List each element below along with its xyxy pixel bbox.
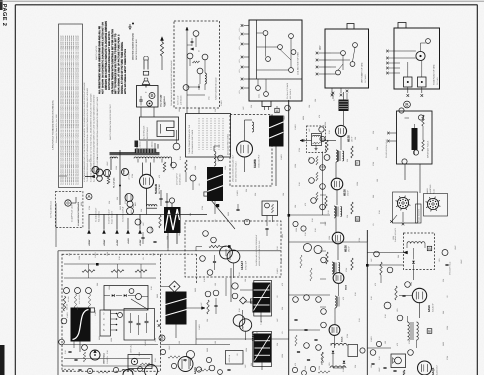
bottom center circles [209, 365, 215, 371]
radio socket enclosure [424, 194, 448, 217]
svg-text:CONTROL: CONTROL [106, 356, 109, 364]
svg-text:.22: .22 [276, 296, 279, 299]
filter section circle A [135, 219, 141, 225]
B plus risers [146, 206, 148, 215]
heater feed wire [85, 176, 91, 178]
right vertical bus [366, 230, 368, 375]
vert lin control box [128, 355, 152, 369]
svg-text:100: 100 [214, 283, 217, 286]
filter capacitor C1B [165, 200, 168, 202]
junction square flyback [216, 204, 219, 207]
agc bottom wire [64, 344, 158, 346]
agc bottom wire 2 [64, 358, 150, 360]
wire right bus to quad [367, 252, 403, 254]
heater tube V15b [127, 201, 133, 207]
svg-text:.047: .047 [244, 365, 247, 369]
heater feed arrow [91, 175, 94, 178]
svg-text:5U4GB: 5U4GB [154, 183, 158, 194]
quad boxed letter B [427, 246, 431, 250]
svg-text:100: 100 [214, 341, 217, 344]
2nd IF wiring [335, 162, 337, 178]
transformer lead left [110, 158, 112, 170]
svg-text:.001: .001 [217, 159, 220, 163]
svg-text:.0047: .0047 [178, 232, 181, 237]
video out coupling box [262, 201, 278, 216]
svg-text:2ND IF: 2ND IF [347, 189, 350, 196]
svg-text:TO PIN 3 INTERLOCK: TO PIN 3 INTERLOCK [50, 200, 53, 218]
pilot light dashed box [55, 192, 83, 228]
legend chassis ground symbol [129, 24, 131, 27]
coil section divider [249, 78, 302, 80]
svg-text:.047: .047 [276, 319, 279, 323]
svg-text:YOKE PLUG TOP VIEW: YOKE PLUG TOP VIEW [433, 64, 436, 85]
IF coil core lines 1 [338, 151, 340, 161]
1st IF transformer core [339, 100, 349, 112]
filament riser wire [119, 150, 121, 205]
horiz damper circle [173, 143, 180, 150]
contrast cap C30 [265, 227, 268, 229]
svg-text:PLUG: PLUG [432, 189, 435, 194]
IF coil L12 [332, 262, 334, 274]
transformer primary leads [136, 143, 138, 149]
left edge solid wire [57, 251, 59, 375]
svg-text:50K 3W: 50K 3W [66, 304, 69, 310]
radio socket circle [427, 198, 438, 209]
yoke small circle [426, 39, 431, 44]
tuner vertical feed wire [186, 30, 188, 103]
svg-text:.001: .001 [438, 259, 441, 263]
rectifier plate leads [142, 163, 144, 176]
picture tube circle bottom [145, 365, 158, 375]
page edge shadow top-left [0, 0, 3, 10]
B+ feed wire 1 [88, 214, 90, 230]
right misc caps [371, 362, 374, 364]
agc test circle B [75, 288, 81, 294]
agc dashed enclosure [62, 254, 161, 371]
svg-text:1 MEG: 1 MEG [294, 124, 297, 130]
ladder wiring vertical [322, 152, 324, 216]
coil section bottom tab [262, 101, 271, 107]
transformer secondary taps [137, 159, 139, 163]
yoke plug box outline [394, 28, 440, 89]
svg-text:VERT HOLD: VERT HOLD [103, 352, 106, 364]
phase det diode X2 [112, 294, 115, 297]
svg-text:1 MEG: 1 MEG [276, 268, 279, 274]
quad box feed wire [381, 264, 404, 266]
quad coil dashed box [404, 233, 435, 270]
svg-text:100: 100 [160, 95, 163, 98]
terminal strip TS1 [100, 310, 111, 336]
VHF tuner dashed enclosure [174, 21, 220, 108]
svg-text:TO JUNCTION OF: TO JUNCTION OF [95, 208, 98, 222]
svg-text:.047: .047 [370, 259, 373, 263]
wire flyback to bus [214, 201, 216, 214]
UHF pin arrows [324, 52, 331, 54]
flyback boxed terminal [204, 192, 208, 196]
sync wiring [220, 246, 226, 248]
bottom edge circle 3 [138, 367, 143, 372]
T3 lead top [276, 106, 278, 108]
phono socket enclosure [393, 192, 418, 223]
AC interlock plug flare [142, 81, 150, 85]
B+ arrow terminal 4 [138, 230, 142, 234]
vert cap C41 [214, 304, 217, 306]
sound takeoff core lines [337, 297, 339, 307]
coil section box outline [249, 20, 302, 101]
sync wire x231 [230, 268, 232, 302]
switch S1B contact [147, 101, 153, 107]
svg-text:.047: .047 [308, 129, 311, 133]
bottom caps small [68, 350, 71, 352]
far right circled letter [442, 250, 448, 256]
svg-text:COIL SECTION TOP VIEW: COIL SECTION TOP VIEW [297, 52, 300, 75]
tuner internal circle V5 [197, 68, 203, 74]
svg-text:6BZ6: 6BZ6 [343, 189, 347, 196]
svg-text:IMPORTANT FOCUS: IMPORTANT FOCUS [427, 140, 430, 158]
coupling box resistor [271, 204, 273, 213]
svg-text:6AW8: 6AW8 [253, 159, 257, 168]
heater tube V23 [127, 208, 134, 215]
center bottom circle row [292, 367, 297, 372]
B plus distribution wire [89, 214, 207, 216]
sync discriminator transformer T5 blob [253, 283, 271, 313]
svg-text:470: 470 [294, 363, 297, 366]
phase det wiring [104, 295, 110, 297]
svg-text:5600: 5600 [281, 234, 284, 238]
audio amp grid components [395, 286, 397, 300]
svg-text:HORIZ OUTPUT TUBE TOP CAP: HORIZ OUTPUT TUBE TOP CAP [258, 240, 261, 266]
sync input resistor R40 [209, 245, 220, 247]
legend bullet [132, 23, 134, 25]
svg-text:6AU6: 6AU6 [341, 336, 344, 342]
IF resistor R22 [325, 196, 327, 208]
video det tube V15 [333, 273, 344, 284]
IF strip left stubs [320, 138, 326, 140]
horiz section circle [244, 219, 250, 225]
bottom edge coil [122, 370, 134, 372]
cap bank box [124, 309, 155, 341]
svg-text:ANT COAX FINE TUNING: ANT COAX FINE TUNING [227, 133, 230, 155]
svg-text:121V: 121V [319, 45, 322, 50]
ratio det box [348, 345, 358, 357]
audio amp wiring [399, 295, 412, 297]
svg-text:6AV6: 6AV6 [427, 305, 431, 312]
svg-text:AC INTERLOCK: AC INTERLOCK [143, 125, 146, 139]
power switch box [137, 86, 159, 108]
svg-text:OF FUNER: OF FUNER [364, 74, 367, 83]
svg-text:TUNER CONNECTIONS WITH THE: TUNER CONNECTIONS WITH THE [188, 124, 191, 154]
agc dashed extension right [196, 254, 198, 284]
junction square sync [228, 245, 231, 248]
svg-text:.0047: .0047 [378, 368, 381, 373]
horiz section cap [236, 208, 239, 210]
phase det circled letter [129, 289, 134, 294]
agc test circle A [64, 288, 70, 294]
bottom edge circle 1 [87, 368, 92, 373]
svg-text:1 MEG: 1 MEG [236, 190, 239, 196]
sound takeoff coil L41 [331, 344, 347, 346]
svg-text:5600: 5600 [206, 348, 209, 352]
agc wire 2 [64, 277, 156, 279]
video out transformer T3 blob [269, 116, 284, 147]
svg-text:.01: .01 [276, 224, 279, 227]
svg-text:1 MEG: 1 MEG [198, 324, 201, 330]
wire audio bottom [332, 364, 334, 368]
audio output transformer T9 [408, 322, 410, 340]
focus solenoid bar [412, 128, 418, 150]
svg-text:1ST IF: 1ST IF [351, 136, 354, 142]
coil section tab leads [264, 107, 266, 111]
svg-text:.01: .01 [372, 224, 375, 227]
filter capacitor C1A [159, 197, 162, 199]
ladder test circle 6 [320, 204, 326, 210]
quad arrow [404, 251, 408, 254]
page edge shadow bottom-left [0, 345, 5, 375]
circled terminal right [171, 162, 177, 168]
B+ arrow terminal 1 [87, 230, 91, 234]
extra B+ arrow [127, 218, 129, 230]
svg-text:TO PIN 4 OF TUNER: TO PIN 4 OF TUNER [286, 82, 289, 99]
heater tube V13 [97, 176, 103, 182]
svg-text:.01: .01 [88, 160, 91, 163]
agc resistor R52 [135, 270, 147, 273]
svg-text:VERT LIN: VERT LIN [130, 345, 133, 353]
tuner junction dot [198, 86, 200, 88]
svg-text:1 MEG: 1 MEG [94, 252, 97, 258]
tuner parts list box [186, 114, 231, 158]
svg-text:1 MEG: 1 MEG [66, 312, 69, 318]
agc test circle C [86, 288, 92, 294]
UHF terminal circles [341, 51, 346, 56]
coil section terminal circles [263, 31, 268, 36]
UHF bottom X arrows [331, 88, 333, 93]
filter section circle B [147, 227, 153, 233]
audio amp tube V20 6AV6 [412, 288, 426, 302]
3rd IF amp tube V9 6BZ6 [332, 232, 344, 244]
svg-text:1 MEG: 1 MEG [94, 310, 97, 316]
svg-text:SAFETY NOTICE: SAFETY NOTICE [95, 45, 98, 60]
vert osc tube V19 12AX7 section A [233, 315, 245, 327]
svg-text:VIDEO OUTPUT: VIDEO OUTPUT [257, 154, 260, 168]
svg-text:.22: .22 [236, 354, 239, 357]
ladder resistor 3 [316, 192, 318, 201]
yoke wiring [420, 43, 422, 51]
svg-text:470: 470 [342, 297, 345, 300]
sound takeoff tube V16 [329, 325, 340, 336]
focus control box [397, 111, 433, 164]
AC interlock plug prongs lower [144, 78, 146, 81]
svg-text:+140V: +140V [116, 239, 119, 246]
audio takeoff resistor R60 [380, 262, 382, 275]
IF strip feed wire [343, 92, 345, 100]
resistor under TP B [74, 294, 76, 308]
T7 leads [79, 342, 81, 353]
svg-text:FOLLOWING IN ONE TUNER: FOLLOWING IN ONE TUNER [191, 129, 194, 154]
B+ arrow terminal 2 [102, 230, 106, 234]
phase det diagonal [131, 299, 148, 310]
focus resistor R71 [422, 140, 424, 151]
wire sync column [225, 278, 227, 296]
antenna arrow [161, 37, 164, 41]
tuner resistor R3 [193, 61, 200, 63]
ladder test circle 1 [309, 158, 315, 164]
yoke bottom arrows [407, 87, 409, 93]
IF strip top arrows [332, 95, 334, 99]
svg-text:R40 AND R41: R40 AND R41 [98, 211, 101, 222]
transformer lead right [171, 158, 173, 166]
T7 top terminal [90, 308, 94, 312]
sound resistor R61 [321, 352, 323, 365]
svg-text:3RD IF: 3RD IF [348, 245, 351, 252]
agc wire top [58, 250, 281, 252]
width resistor R31 [185, 160, 187, 172]
svg-text:+135V: +135V [139, 239, 142, 246]
svg-text:470: 470 [374, 283, 377, 286]
main vertical bus center [288, 100, 290, 375]
center bottom resistors [295, 335, 297, 346]
tuner trimmer cap C2 [191, 40, 194, 42]
AC interlock plug neck [143, 60, 145, 70]
svg-text:.047: .047 [142, 223, 145, 227]
agc bus wire [64, 263, 156, 265]
svg-text:RECEPTACLE: RECEPTACLE [146, 126, 149, 139]
horiz blocking transformer T8 blob [166, 292, 187, 325]
coil section wiring [265, 35, 267, 56]
schematic border left [14, 5, 16, 375]
IF resistor R21 [351, 146, 353, 158]
yoke socket circle [416, 51, 425, 60]
bottom edge circle 2 [113, 367, 118, 372]
filter cap C6 [153, 240, 156, 242]
IF coil core lines 2 [336, 207, 338, 217]
ladder resistor 2 [316, 172, 318, 181]
AC interlock plug collar [143, 71, 148, 75]
vert lin resistor [140, 363, 150, 365]
circled B agc [159, 335, 165, 341]
service notes box [59, 24, 83, 188]
svg-text:470: 470 [281, 283, 284, 286]
horiz osc diamond [169, 281, 180, 292]
center circles row [293, 221, 298, 226]
fuse blob near primary [135, 141, 139, 148]
flyback transformer T4 blob [207, 167, 223, 201]
wire sound to volume [343, 365, 345, 368]
svg-text:.0047: .0047 [460, 260, 463, 265]
schematic border top [15, 4, 477, 6]
svg-text:+140V: +140V [127, 237, 130, 244]
wire horiz section [195, 247, 197, 252]
svg-text:100: 100 [384, 341, 387, 344]
svg-text:6BZ6: 6BZ6 [344, 245, 348, 252]
T5 leads [240, 289, 253, 291]
svg-text:VERT LIN: VERT LIN [228, 354, 231, 362]
boxed letter A above T3 [275, 108, 279, 112]
ladder horizontal wire [289, 214, 330, 216]
sound diode X5 [343, 361, 346, 364]
trap ground symbol [315, 146, 317, 149]
svg-text:DENOTES CHASSIS GROUND: DENOTES CHASSIS GROUND [132, 32, 135, 60]
T9 terminal circle [397, 315, 403, 321]
yoke left pin stubs [394, 50, 400, 52]
UHF tuner tab [347, 24, 354, 30]
T2 leads bottom [167, 233, 169, 248]
svg-text:360VAC: 360VAC [151, 141, 154, 148]
trap lower circle [324, 155, 330, 161]
svg-text:1.5 AMP CIRCUIT BREAKER: 1.5 AMP CIRCUIT BREAKER [77, 201, 80, 226]
ladder test circle 2 [320, 165, 326, 171]
resistor under TP6 [83, 352, 85, 362]
bottom edge cap 1 [78, 368, 81, 370]
filter choke L1 [147, 205, 158, 207]
T8 lead right [187, 307, 206, 309]
vert resistor R42 [207, 300, 209, 314]
svg-text:.0047: .0047 [324, 222, 327, 227]
T9 boxed letter B [427, 329, 432, 334]
svg-text:RECTIFIER: RECTIFIER [158, 183, 161, 194]
svg-text:.22: .22 [446, 296, 449, 299]
T2 lead top [171, 203, 173, 207]
picture tube circle left [123, 370, 133, 375]
interlock silhouette [157, 121, 174, 137]
T8 bottom lead [175, 325, 177, 339]
IF bottom wiring [334, 335, 336, 348]
svg-text:1 MEG: 1 MEG [144, 340, 147, 346]
bottom center resistor [198, 369, 210, 371]
audio amp terminal [405, 282, 411, 288]
ladder test circle 3 [309, 178, 315, 184]
junction square audio [366, 264, 369, 267]
junction dot filament [119, 185, 121, 187]
svg-text:5600: 5600 [227, 212, 230, 216]
svg-text:.0047: .0047 [454, 246, 457, 251]
svg-text:100: 100 [376, 179, 379, 182]
scan line top edge [0, 0, 484, 2]
svg-text:100: 100 [152, 253, 155, 256]
ladder resistor 1 [316, 156, 318, 165]
trap coil box [312, 134, 322, 146]
video amp dashed box [230, 115, 272, 187]
video det wiring [338, 283, 340, 296]
heater resistor R60 [107, 176, 110, 184]
cap bank capacitor 3 [145, 320, 149, 322]
power transformer T1 secondary winding [134, 157, 172, 159]
svg-text:.0047: .0047 [106, 162, 109, 167]
antenna lead to bus [161, 56, 163, 70]
T2 test circle [169, 198, 174, 203]
width circle [190, 175, 196, 181]
heater tube V11 [96, 169, 103, 176]
heater tube V14 [122, 169, 129, 176]
video peaking coil L20 [252, 122, 254, 132]
svg-text:AUDIO OUT: AUDIO OUT [435, 364, 438, 375]
svg-text:RADIO SOCKET: RADIO SOCKET [111, 211, 114, 224]
vert test circle 2 [213, 290, 219, 296]
focus wiring [414, 124, 416, 128]
bottom left test circle TP5 [59, 339, 65, 345]
svg-text:B: B [160, 336, 163, 341]
svg-text:.0047: .0047 [164, 102, 167, 107]
coil section lower circles [256, 86, 261, 91]
junction square video [288, 214, 291, 217]
bottom left test circle TP6 [82, 345, 88, 351]
ladder test circle 4 [320, 184, 326, 190]
sync test circle TP3 [200, 256, 206, 262]
trap terminal circle [319, 127, 324, 132]
audio wire [367, 264, 381, 266]
far right cap [445, 263, 448, 265]
svg-text:.01: .01 [214, 220, 217, 223]
svg-text:12AX7: 12AX7 [240, 260, 244, 270]
